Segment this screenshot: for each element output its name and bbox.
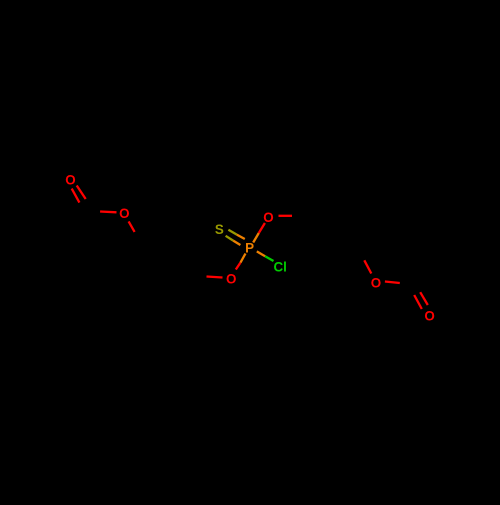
svg-text:O: O: [119, 206, 129, 221]
bond S=P upper line P half: [237, 235, 245, 239]
svg-text:O: O: [263, 210, 273, 225]
bond C=O double line 2 (left acetate): [72, 189, 80, 203]
svg-text:O: O: [371, 275, 381, 290]
bond C=O double line 1 (left acetate): [77, 186, 86, 200]
bond O-P half (upper right O side): [259, 223, 265, 233]
svg-text:O: O: [424, 309, 434, 324]
bond O-P half (lower left O side): [236, 263, 241, 270]
bond S=P lower line S half: [226, 236, 234, 241]
bond P-Cl half (Cl side): [265, 256, 273, 261]
bond O-C ester half (right acetate): [385, 282, 400, 284]
bond P-O half (to lower left O): [240, 254, 245, 263]
bond P-Cl half (P side): [257, 251, 265, 256]
bond C=O double line 2 (right acetate): [414, 295, 422, 309]
bond C-O ester half (left acetate): [100, 210, 116, 213]
bond C=O double line 1 (right acetate): [420, 292, 428, 305]
svg-text:O: O: [65, 173, 75, 188]
svg-text:O: O: [226, 272, 236, 287]
bond P-O half (to upper right O): [253, 233, 259, 243]
bond S=P lower line P half: [233, 241, 240, 245]
svg-text:P: P: [245, 241, 254, 256]
bond O-C half going up-left (right ester O): [364, 260, 371, 273]
bond O-C half going down-right (left ester O): [129, 221, 135, 232]
bond O-C half going left (lower left O): [207, 277, 223, 278]
bond O-CH3 half (methoxy): [279, 215, 293, 217]
svg-text:S: S: [215, 222, 224, 237]
bond S=P upper line S half: [228, 230, 236, 235]
svg-text:Cl: Cl: [273, 260, 286, 275]
